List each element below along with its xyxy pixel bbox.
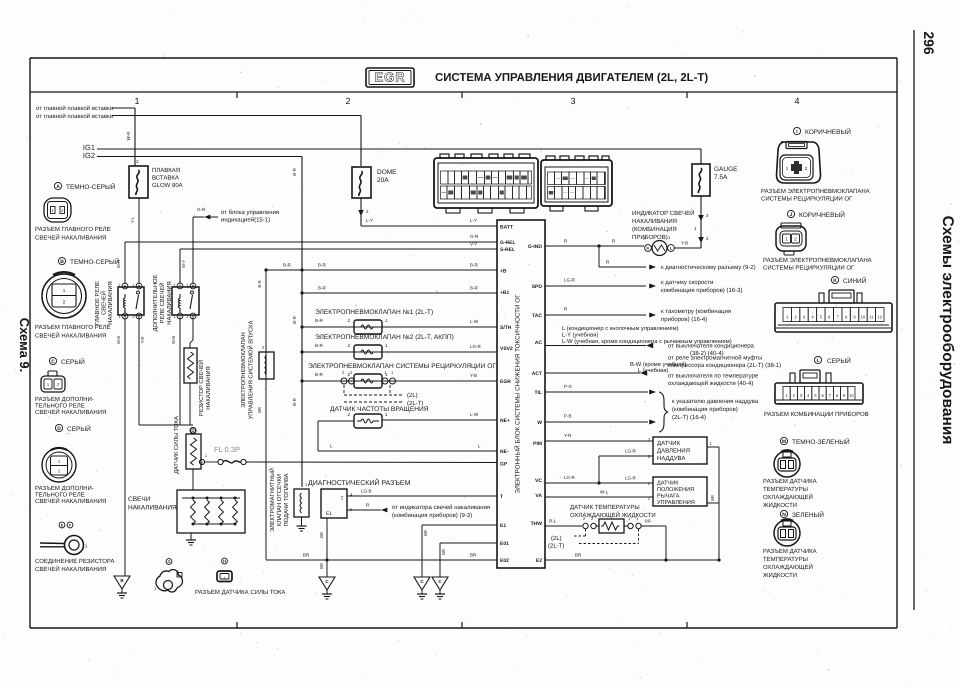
svg-text:P-B: P-B [564, 414, 572, 419]
svg-text:РАЗЪЕМ КОМБИНАЦИИ ПРИБОРОВ: РАЗЪЕМ КОМБИНАЦИИ ПРИБОРОВ [764, 411, 869, 418]
svg-text:S-REL: S-REL [500, 247, 515, 253]
svg-text:ОХЛАЖДАЮЩЕЙ: ОХЛАЖДАЮЩЕЙ [763, 563, 813, 571]
svg-text:GLOW 80A: GLOW 80A [152, 182, 183, 189]
svg-text:R-L: R-L [549, 519, 557, 524]
svg-text:ДАТЧИК ЧАСТОТЫ ВРАЩЕНИЯ: ДАТЧИК ЧАСТОТЫ ВРАЩЕНИЯ [330, 406, 429, 413]
svg-text:УПРАВЛЕНИЯ СИСТЕМОЙ ВПУСКА: УПРАВЛЕНИЯ СИСТЕМОЙ ВПУСКА [247, 320, 255, 419]
svg-text:НАКАЛИВАНИЯ: НАКАЛИВАНИЯ [128, 505, 177, 512]
svg-text:РАЗЪЕМ ДОПОЛНИ-: РАЗЪЕМ ДОПОЛНИ- [35, 485, 94, 492]
svg-text:СИНИЙ: СИНИЙ [843, 277, 867, 285]
svg-text:ТЕМПЕРАТУРЫ: ТЕМПЕРАТУРЫ [763, 486, 808, 493]
svg-text:GAUGE: GAUGE [714, 166, 738, 173]
svg-text:NE-: NE- [500, 449, 509, 455]
svg-text:B-R: B-R [315, 343, 324, 348]
svg-text:L-W: L-W [470, 412, 479, 417]
svg-text:20A: 20A [377, 177, 389, 184]
svg-text:ЭЛЕКТРОПНЕВМОКЛАПАН №2 (2L-T,: ЭЛЕКТРОПНЕВМОКЛАПАН №2 (2L-T, АКПП) [315, 334, 454, 341]
svg-text:ДАВЛЕНИЯ: ДАВЛЕНИЯ [657, 448, 690, 455]
svg-text:1: 1 [63, 288, 66, 293]
svg-text:охлаждающей жидкости (40-4): охлаждающей жидкости (40-4) [668, 380, 753, 387]
svg-text:ПРИБОРОВ): ПРИБОРОВ) [632, 234, 668, 241]
svg-text:B: B [138, 284, 141, 288]
svg-text:НАКАЛИВАНИЯ: НАКАЛИВАНИЯ [632, 218, 677, 225]
svg-text:L-Y: L-Y [366, 218, 373, 223]
svg-text:ПОДАЧИ ТОПЛИВА: ПОДАЧИ ТОПЛИВА [283, 473, 290, 526]
svg-text:B-R: B-R [470, 263, 479, 268]
svg-text:IG2: IG2 [83, 151, 95, 160]
svg-text:B-R: B-R [318, 286, 327, 291]
svg-text:VC: VC [535, 478, 542, 484]
svg-text:SPD: SPD [532, 284, 543, 290]
svg-text:СОЕДИНЕНИЕ РЕЗИСТОРА: СОЕДИНЕНИЕ РЕЗИСТОРА [35, 558, 115, 565]
svg-text:B-R: B-R [315, 372, 324, 377]
svg-text:BR: BR [575, 553, 582, 558]
svg-text:G-R: G-R [470, 234, 479, 239]
svg-text:(комбинация приборов): (комбинация приборов) [672, 406, 738, 413]
svg-text:TIL: TIL [535, 390, 543, 396]
svg-text:A: A [124, 314, 127, 318]
svg-text:BR: BR [441, 549, 446, 555]
svg-text:TAC: TAC [532, 313, 542, 319]
svg-text:C: C [179, 284, 182, 288]
svg-text:B-R: B-R [283, 263, 292, 268]
svg-text:LG-R: LG-R [625, 476, 637, 481]
svg-text:12: 12 [878, 315, 883, 320]
svg-text:СИСТЕМЫ РЕЦИРКУЛЯЦИИ ОГ: СИСТЕМЫ РЕЦИРКУЛЯЦИИ ОГ [761, 196, 853, 203]
svg-text:4: 4 [794, 96, 799, 106]
svg-text:(2L): (2L) [407, 392, 418, 399]
svg-text:(КОМБИНАЦИЯ: (КОМБИНАЦИЯ [632, 226, 677, 233]
svg-text:ГЛАВНОЕ РЕЛЕ: ГЛАВНОЕ РЕЛЕ [94, 281, 101, 325]
svg-text:G-REL: G-REL [500, 240, 516, 246]
svg-text:3: 3 [570, 96, 575, 106]
svg-text:ACT: ACT [532, 371, 542, 377]
svg-text:Y-B: Y-B [681, 241, 688, 246]
svg-text:ДАТЧИК ТЕМПЕРАТУРЫ: ДАТЧИК ТЕМПЕРАТУРЫ [570, 504, 640, 511]
svg-text:PIM: PIM [533, 441, 542, 447]
svg-text:G: G [167, 559, 170, 564]
svg-text:СИСТЕМЫ РЕЦИРКУЛЯЦИИ ОГ: СИСТЕМЫ РЕЦИРКУЛЯЦИИ ОГ [763, 265, 855, 272]
svg-text:NE+: NE+ [500, 418, 510, 424]
svg-text:ТЕМПЕРАТУРЫ: ТЕМПЕРАТУРЫ [763, 556, 808, 563]
svg-text:BR: BR [423, 530, 428, 536]
svg-text:СВЕЧЕЙ НАКАЛИВАНИЯ: СВЕЧЕЙ НАКАЛИВАНИЯ [35, 497, 106, 505]
svg-text:ЭЛЕКТРОПНЕВМОКЛАПАН СИСТЕМЫ РЕ: ЭЛЕКТРОПНЕВМОКЛАПАН СИСТЕМЫ РЕЦИРКУЛЯЦИИ… [308, 363, 496, 370]
svg-text:УПРАВЛЕНИЯ: УПРАВЛЕНИЯ [657, 500, 695, 506]
svg-text:к датчику скорости: к датчику скорости [661, 280, 713, 286]
svg-text:РАЗЪЕМ ДОПОЛНИ-: РАЗЪЕМ ДОПОЛНИ- [35, 396, 94, 403]
svg-text:E02: E02 [500, 558, 509, 564]
svg-text:ЭЛЕКТРОПНЕВМОКЛАПАН №1 (2L-T): ЭЛЕКТРОПНЕВМОКЛАПАН №1 (2L-T) [315, 309, 433, 316]
svg-text:DOME: DOME [377, 169, 397, 176]
svg-text:W-B: W-B [116, 336, 121, 344]
svg-text:B: B [138, 314, 141, 318]
svg-text:от выключателя по температуре: от выключателя по температуре [668, 374, 759, 380]
svg-text:к тахометру (комбинация: к тахометру (комбинация [661, 308, 731, 315]
svg-text:THW: THW [531, 521, 543, 527]
svg-text:BR: BR [319, 563, 324, 569]
svg-text:H: H [223, 558, 226, 563]
svg-text:ТЕМНО-ЗЕЛЕНЫЙ: ТЕМНО-ЗЕЛЕНЫЙ [792, 438, 850, 446]
svg-text:BR: BR [470, 553, 477, 558]
svg-text:РЫЧАГА: РЫЧАГА [657, 494, 680, 500]
svg-text:W-L: W-L [600, 490, 609, 495]
svg-text:Схемы электрооборудования: Схемы электрооборудования [939, 216, 956, 445]
svg-text:2: 2 [63, 300, 66, 305]
svg-text:VA: VA [535, 493, 542, 499]
svg-text:AC: AC [535, 340, 543, 346]
svg-text:от выключателя кондиционера: от выключателя кондиционера [668, 344, 755, 350]
svg-text:(2L-T): (2L-T) [548, 543, 564, 550]
svg-text:C: C [179, 314, 182, 318]
svg-text:СЕРЫЙ: СЕРЫЙ [827, 357, 851, 365]
svg-text:+B1: +B1 [500, 290, 510, 296]
svg-text:ТЕЛЬНОГО РЕЛЕ: ТЕЛЬНОГО РЕЛЕ [35, 492, 85, 499]
svg-text:Y-R: Y-R [564, 433, 572, 438]
svg-text:КЛАПАН ОТСЕЧКИ: КЛАПАН ОТСЕЧКИ [276, 474, 283, 526]
svg-text:РЕЛЕ СВЕЧЕЙ: РЕЛЕ СВЕЧЕЙ [158, 283, 166, 324]
svg-text:РАЗЪЕМ ДАТЧИКА СИЛЫ ТОКА: РАЗЪЕМ ДАТЧИКА СИЛЫ ТОКА [195, 589, 285, 596]
svg-text:СВЕЧЕЙ НАКАЛИВАНИЯ: СВЕЧЕЙ НАКАЛИВАНИЯ [35, 332, 106, 340]
svg-text:T: T [340, 496, 343, 502]
svg-text:ДАТЧИК: ДАТЧИК [657, 440, 681, 447]
svg-text:ЗЕЛЕНЫЙ: ЗЕЛЕНЫЙ [792, 511, 824, 519]
svg-text:B-R: B-R [292, 397, 297, 406]
svg-text:BR: BR [303, 553, 310, 558]
svg-text:СВЕЧЕЙ НАКАЛИВАНИЯ: СВЕЧЕЙ НАКАЛИВАНИЯ [35, 234, 106, 242]
svg-text:EGR: EGR [374, 70, 405, 85]
svg-text:B-R: B-R [257, 280, 262, 287]
svg-text:A: A [124, 284, 127, 288]
svg-text:H: H [201, 461, 204, 465]
svg-text:приборов) (16-4): приборов) (16-4) [661, 316, 707, 323]
svg-text:ЖИДКОСТИ: ЖИДКОСТИ [763, 502, 797, 509]
svg-text:ДОПОЛНИТЕЛЬНОЕ: ДОПОЛНИТЕЛЬНОЕ [152, 274, 159, 331]
svg-text:B-R: B-R [470, 286, 479, 291]
svg-text:от главной плавкой вставки: от главной плавкой вставки [36, 113, 113, 120]
svg-text:VSV2: VSV2 [500, 346, 513, 352]
svg-text:ТЕМНО-СЕРЫЙ: ТЕМНО-СЕРЫЙ [70, 258, 120, 266]
svg-text:ЭЛЕКТРОМАГНИТНЫЙ: ЭЛЕКТРОМАГНИТНЫЙ [268, 468, 276, 532]
svg-text:11: 11 [869, 315, 874, 320]
svg-text:V-Y: V-Y [470, 242, 477, 247]
svg-text:ДАТЧИК: ДАТЧИК [657, 481, 679, 487]
svg-text:296: 296 [921, 31, 937, 55]
svg-text:B-R: B-R [315, 318, 324, 323]
svg-text:СВЕЧЕЙ НАКАЛИВАНИЯ: СВЕЧЕЙ НАКАЛИВАНИЯ [35, 408, 106, 416]
svg-text:СВЕЧЕЙ: СВЕЧЕЙ [100, 291, 108, 315]
svg-text:LG-R: LG-R [564, 278, 576, 283]
svg-text:ЭЛЕКТРОННЫЙ БЛОК СИСТЕМЫ СНИЖЕ: ЭЛЕКТРОННЫЙ БЛОК СИСТЕМЫ СНИЖЕНИЯ ТОКСИЧ… [514, 294, 522, 494]
svg-text:Y-B: Y-B [470, 373, 477, 378]
svg-text:BR: BR [257, 407, 262, 413]
svg-text:ДИАГНОСТИЧЕСКИЙ РАЗЪЕМ: ДИАГНОСТИЧЕСКИЙ РАЗЪЕМ [308, 478, 411, 487]
svg-text:СЕРЫЙ: СЕРЫЙ [67, 425, 91, 433]
svg-text:B-R: B-R [318, 263, 327, 268]
svg-text:W-Y: W-Y [181, 260, 186, 268]
svg-text:E1: E1 [326, 511, 332, 517]
svg-text:(2L-T) (16-4): (2L-T) (16-4) [672, 414, 706, 421]
svg-text:НАКАЛИВАНИЯ: НАКАЛИВАНИЯ [206, 366, 212, 409]
svg-text:W-R: W-R [126, 131, 131, 141]
svg-text:1: 1 [205, 454, 207, 458]
svg-text:НАДДУВА: НАДДУВА [657, 455, 685, 462]
svg-text:СВЕЧЕЙ НАКАЛИВАНИЯ: СВЕЧЕЙ НАКАЛИВАНИЯ [35, 565, 106, 573]
svg-text:BR: BR [319, 532, 324, 538]
svg-text:LG-R: LG-R [470, 344, 482, 349]
svg-text:ТЕЛЬНОГО РЕЛЕ: ТЕЛЬНОГО РЕЛЕ [35, 403, 85, 410]
svg-text:J: J [790, 212, 793, 218]
svg-text:P-G: P-G [564, 384, 573, 389]
svg-text:СИСТЕМА УПРАВЛЕНИЯ ДВИГАТЕЛЕМ: СИСТЕМА УПРАВЛЕНИЯ ДВИГАТЕЛЕМ (2L, 2L-T) [435, 72, 708, 84]
svg-text:M: M [782, 439, 786, 445]
svg-text:компрессора кондиционера (2L-T: компрессора кондиционера (2L-T) (38-1) [668, 362, 781, 369]
svg-text:ПОЛОЖЕНИЯ: ПОЛОЖЕНИЯ [657, 487, 694, 493]
svg-text:D: D [192, 314, 195, 318]
svg-text:C: C [51, 359, 55, 365]
svg-text:B-R: B-R [292, 315, 297, 324]
svg-text:L-Y: L-Y [470, 218, 477, 223]
svg-text:G-R: G-R [197, 207, 206, 212]
svg-text:Y-R: Y-R [140, 337, 145, 344]
svg-text:A: A [56, 184, 60, 190]
svg-text:BR: BR [645, 519, 651, 524]
svg-text:B-R: B-R [292, 167, 297, 176]
svg-text:РАЗЪЕМ ДАТЧИКА: РАЗЪЕМ ДАТЧИКА [763, 478, 817, 485]
svg-text:+B: +B [500, 269, 507, 275]
svg-text:E01: E01 [500, 541, 509, 547]
svg-text:E1: E1 [500, 523, 506, 529]
svg-text:T: T [500, 494, 503, 500]
svg-text:EGR: EGR [500, 379, 511, 385]
svg-text:РАЗЪЕМ ДАТЧИКА: РАЗЪЕМ ДАТЧИКА [763, 548, 817, 555]
svg-text:от главной плавкой вставки: от главной плавкой вставки [36, 105, 113, 112]
svg-text:G: G [192, 429, 195, 433]
svg-text:E2: E2 [536, 558, 542, 564]
svg-text:от реле электромагнитной муфты: от реле электромагнитной муфты [668, 355, 762, 362]
svg-text:к диагностическому разъему (9-: к диагностическому разъему (9-2) [661, 264, 756, 271]
svg-text:L-W: L-W [470, 319, 479, 324]
svg-text:G-IND: G-IND [528, 244, 543, 250]
svg-text:ОХЛАЖДАЮЩЕЙ: ОХЛАЖДАЮЩЕЙ [763, 493, 813, 501]
svg-text:W-B: W-B [171, 336, 176, 344]
svg-text:КОРИЧНЕВЫЙ: КОРИЧНЕВЫЙ [799, 211, 845, 219]
svg-text:от индикатора свечей накаливан: от индикатора свечей накаливания [392, 504, 490, 511]
svg-text:(комбинация приборов) (9-3): (комбинация приборов) (9-3) [392, 512, 472, 519]
svg-text:СЕРЫЙ: СЕРЫЙ [61, 358, 85, 366]
svg-text:LG-R: LG-R [625, 449, 637, 454]
svg-text:BATT: BATT [500, 225, 513, 231]
svg-text:GP: GP [500, 462, 508, 468]
svg-text:РАЗЪЕМ ГЛАВНОГО РЕЛЕ: РАЗЪЕМ ГЛАВНОГО РЕЛЕ [35, 226, 111, 233]
svg-text:от блока управления: от блока управления [221, 209, 279, 216]
svg-text:СВЕЧИ: СВЕЧИ [128, 496, 151, 503]
svg-text:K: K [647, 245, 650, 250]
svg-text:НАКАЛИВАНИЯ: НАКАЛИВАНИЯ [108, 281, 114, 324]
svg-text:7.5A: 7.5A [714, 174, 728, 181]
svg-text:LG-B: LG-B [361, 489, 372, 494]
svg-text:индикацией(15-1): индикацией(15-1) [221, 217, 270, 224]
svg-text:L-Y (учебная): L-Y (учебная) [562, 332, 598, 339]
svg-text:L: L [816, 358, 819, 364]
svg-text:ИНДИКАТОР СВЕЧЕЙ: ИНДИКАТОР СВЕЧЕЙ [632, 209, 694, 217]
svg-text:к указателю давления наддува: к указателю давления наддува [672, 399, 759, 405]
svg-text:W: W [537, 420, 542, 426]
svg-text:D: D [192, 284, 195, 288]
svg-text:LG-R: LG-R [564, 475, 576, 480]
svg-text:ЖИДКОСТИ: ЖИДКОСТИ [763, 572, 797, 579]
svg-text:ВСТАВКА: ВСТАВКА [152, 175, 179, 182]
svg-text:S/TH: S/TH [500, 325, 512, 331]
svg-text:РАЗЪЕМ ЭЛЕКТРОПНЕВМОКЛАПАНА: РАЗЪЕМ ЭЛЕКТРОПНЕВМОКЛАПАНА [763, 257, 872, 264]
svg-text:ПЛАВКАЯ: ПЛАВКАЯ [152, 167, 180, 174]
svg-text:КОРИЧНЕВЫЙ: КОРИЧНЕВЫЙ [805, 128, 851, 136]
svg-text:10: 10 [861, 315, 866, 320]
svg-text:B: B [60, 259, 64, 265]
svg-text:Y-L: Y-L [130, 216, 135, 223]
svg-text:K: K [833, 278, 837, 284]
svg-text:1: 1 [134, 96, 139, 106]
svg-text:Схема 9.: Схема 9. [17, 318, 32, 372]
svg-text:BR: BR [710, 495, 715, 501]
svg-text:D: D [57, 426, 61, 432]
svg-text:W-R: W-R [116, 260, 121, 268]
svg-text:РАЗЪЕМ ЭЛЕКТРОПНЕВМОКЛАПАНА: РАЗЪЕМ ЭЛЕКТРОПНЕВМОКЛАПАНА [761, 188, 870, 195]
svg-text:ТЕМНО-СЕРЫЙ: ТЕМНО-СЕРЫЙ [66, 183, 116, 191]
svg-text:ДАТЧИК СИЛЫ ТОКА: ДАТЧИК СИЛЫ ТОКА [173, 416, 180, 474]
svg-text:ЭЛЕКТРОПНЕВМОКЛАПАН: ЭЛЕКТРОПНЕВМОКЛАПАН [240, 332, 247, 407]
svg-text:N: N [782, 512, 786, 518]
svg-text:10: 10 [849, 393, 854, 398]
svg-text:L (кондиционер с кнопочным упр: L (кондиционер с кнопочным управлением) [562, 325, 679, 332]
svg-text:FL 0.3P: FL 0.3P [214, 445, 240, 454]
svg-text:комбинация приборов) (16-3): комбинация приборов) (16-3) [661, 287, 742, 294]
svg-text:РЕЗИСТОР СВЕЧЕЙ: РЕЗИСТОР СВЕЧЕЙ [197, 360, 205, 416]
svg-text:L (учебная): L (учебная) [638, 367, 669, 374]
svg-text:(2L): (2L) [551, 535, 562, 542]
svg-text:2: 2 [345, 96, 350, 106]
